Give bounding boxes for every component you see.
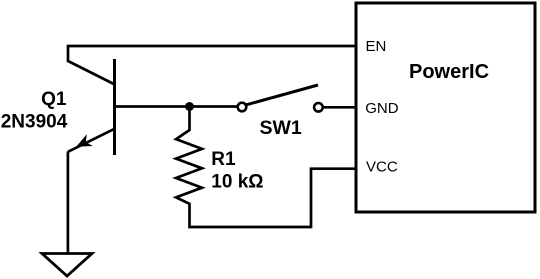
svg-text:R1: R1 <box>211 149 236 170</box>
svg-text:SW1: SW1 <box>260 117 302 139</box>
svg-text:10 kΩ: 10 kΩ <box>211 172 263 193</box>
svg-text:2N3904: 2N3904 <box>1 111 68 132</box>
svg-text:PowerIC: PowerIC <box>409 61 489 83</box>
svg-text:VCC: VCC <box>366 159 398 176</box>
svg-text:Q1: Q1 <box>41 89 67 110</box>
svg-text:EN: EN <box>366 38 387 55</box>
svg-text:GND: GND <box>365 100 399 117</box>
